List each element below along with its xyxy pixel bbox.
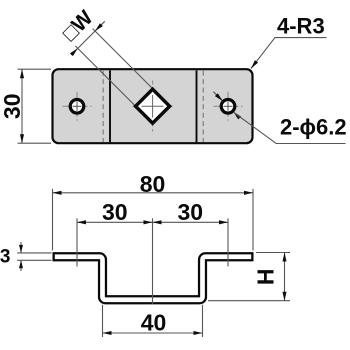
- W dim arrow lower: [70, 48, 78, 56]
- W dimension line (arrows outside): [71, 21, 105, 55]
- 30 dim line: [21, 69, 23, 143]
- hole right center cross: [224, 105, 233, 107]
- 30 dim ext bottom: [18, 142, 52, 144]
- 40 dim line: [103, 332, 203, 334]
- leader 2-phi6.2: [235, 113, 346, 143]
- 80 dim ext right: [252, 189, 254, 251]
- W dim extension line from diamond left vertex: [75, 46, 135, 106]
- diamond centerline vertical: [152, 81, 154, 132]
- profile sheet outer (black): [53, 257, 254, 300]
- 30-30 ext left: [76, 218, 78, 266]
- 40 arrow right: [194, 331, 203, 335]
- W dim arrow upper: [95, 23, 103, 31]
- diamond centerline horizontal: [133, 105, 173, 107]
- 80 arrow left: [53, 191, 62, 195]
- bend line left (solid): [109, 70, 111, 142]
- arrow 30R left: [153, 220, 162, 224]
- svg-text:40: 40: [141, 310, 167, 336]
- svg-text:80: 80: [140, 171, 166, 197]
- square hole W (rotated 45): [136, 89, 170, 123]
- svg-text:30: 30: [0, 94, 25, 120]
- 40 dim ext left: [102, 305, 104, 337]
- 30 arrow bottom: [20, 134, 24, 143]
- H arrow bottom: [282, 292, 286, 301]
- 3 arrow upper (down): [19, 245, 23, 253]
- hole left center cross: [73, 105, 82, 107]
- 30 arrow top: [20, 69, 24, 78]
- H dim line: [284, 253, 286, 301]
- arrow 30L left: [77, 220, 86, 224]
- svg-text:□W: □W: [58, 6, 97, 45]
- profile sheet core (white): [55, 257, 251, 300]
- svg-text:3: 3: [0, 246, 10, 267]
- 80 dim ext left: [52, 189, 54, 251]
- 3 dim line upper: [20, 242, 22, 253]
- 3 dim line lower: [20, 260, 22, 271]
- hole left centerline vertical: [76, 92, 78, 121]
- bend line right (solid): [196, 70, 198, 142]
- H arrow top: [282, 253, 286, 262]
- hole right centerline vertical: [227, 92, 229, 121]
- 30-30 ext right: [227, 218, 229, 266]
- diamond center cross: [142, 105, 164, 107]
- 30-30 dim line: [77, 221, 228, 223]
- hole left centerline horizontal: [63, 105, 92, 107]
- svg-text:30: 30: [178, 199, 204, 225]
- svg-text:2-ϕ6.2: 2-ϕ6.2: [280, 115, 347, 140]
- bend tangent line right (dashed): [202, 71, 204, 142]
- 40 arrow left: [103, 331, 112, 335]
- arrow 4-R3 at corner: [251, 60, 258, 68]
- H dim ext top: [256, 252, 290, 254]
- svg-text:4-R3: 4-R3: [277, 14, 325, 39]
- 3 arrow lower (up): [19, 260, 23, 268]
- leader 4-R3: [251, 38, 327, 69]
- svg-text:30: 30: [102, 199, 128, 225]
- hole right centerline horizontal: [214, 105, 243, 107]
- 80 dim line: [53, 192, 254, 194]
- hole right phi6.2: [221, 100, 235, 114]
- phi dim arrow lower-right: [233, 112, 241, 120]
- arrow 30R right: [219, 220, 228, 224]
- W dim extension line from diamond top vertex: [93, 29, 153, 89]
- plate body: [53, 69, 253, 143]
- phi leader upper diagonal segment: [213, 92, 222, 101]
- bend tangent line left (dashed): [102, 71, 104, 142]
- 3 dim ext top: [17, 252, 51, 254]
- phi dim arrow upper-left: [215, 93, 223, 101]
- 3 dim ext bottom: [17, 259, 51, 261]
- svg-text:H: H: [253, 268, 279, 285]
- 40 dim ext right: [202, 305, 204, 337]
- hole left phi6.2: [70, 100, 84, 114]
- arrow 30L right: [144, 220, 153, 224]
- 30 dim ext top: [18, 68, 52, 70]
- H dim ext bottom: [208, 300, 290, 302]
- 30-30 ext middle: [152, 218, 154, 304]
- 80 arrow right: [244, 191, 253, 195]
